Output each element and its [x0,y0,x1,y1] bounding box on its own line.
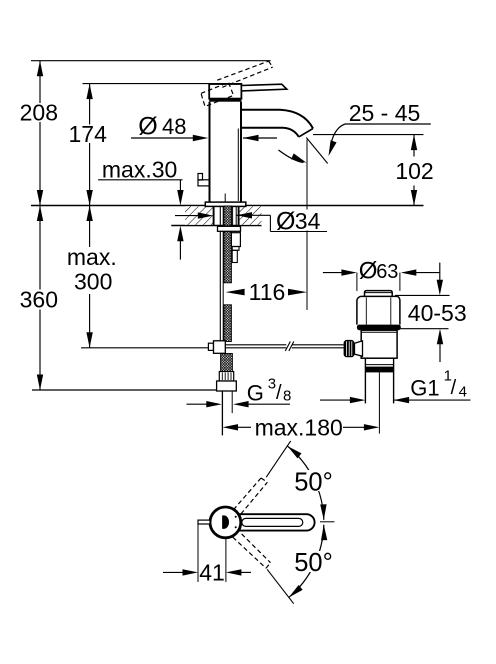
svg-text:116: 116 [249,279,286,305]
svg-text:3: 3 [268,376,276,393]
svg-text:/: / [276,382,282,404]
svg-text:4: 4 [459,384,467,401]
svg-text:max.180: max.180 [255,414,343,440]
svg-text:Ø: Ø [276,207,295,235]
svg-text:63: 63 [376,261,398,283]
svg-text:G: G [247,380,264,405]
svg-text:40-53: 40-53 [408,300,467,326]
svg-text:max.30: max.30 [102,157,177,183]
svg-text:max.: max. [67,244,117,270]
svg-text:/: / [451,377,457,399]
svg-text:G1: G1 [410,375,439,400]
svg-text:360: 360 [20,287,58,313]
svg-text:41: 41 [199,560,225,586]
svg-text:Ø: Ø [138,112,157,140]
svg-text:25 - 45: 25 - 45 [349,100,421,126]
svg-text:50°: 50° [294,549,333,577]
svg-text:174: 174 [69,121,108,147]
svg-text:34: 34 [295,208,321,234]
svg-text:8: 8 [283,387,291,404]
svg-text:48: 48 [162,114,186,139]
svg-text:300: 300 [74,269,112,295]
svg-text:208: 208 [20,100,58,126]
svg-text:Ø: Ø [359,257,378,284]
svg-text:102: 102 [395,158,433,184]
svg-text:50°: 50° [294,469,333,497]
